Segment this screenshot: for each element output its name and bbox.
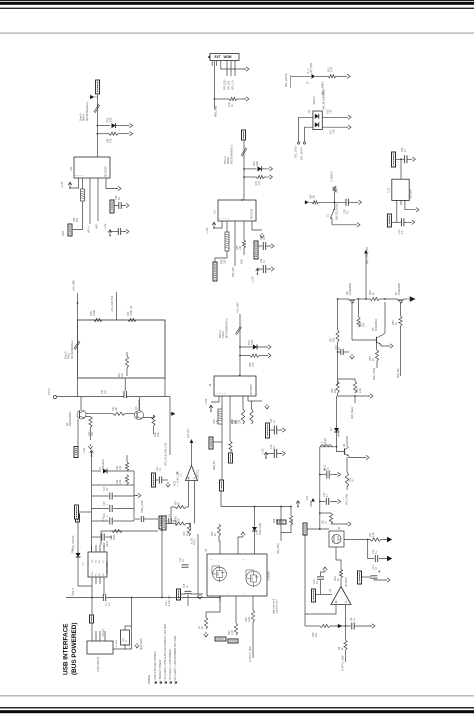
regulator U9	[218, 200, 256, 221]
capacitor C13b	[375, 555, 377, 562]
ground R58	[128, 132, 133, 136]
wire q2 link	[337, 447, 345, 452]
wire c13 a	[338, 351, 341, 353]
junction bus usb	[91, 597, 221, 599]
wire u10 in	[400, 159, 402, 179]
svg-text:SRA4-3: SRA4-3	[313, 96, 316, 105]
border top frame line	[0, 32, 474, 35]
junction U9 top	[241, 199, 243, 201]
label Q7 mmbt3906	[395, 283, 401, 295]
wire pwr sense rail	[78, 522, 92, 586]
svg-text:U.10: U.10	[388, 187, 391, 193]
wire r46 down	[243, 248, 245, 255]
wire s1 a	[311, 201, 312, 203]
ground bank	[136, 493, 141, 497]
wire u7 out up	[191, 441, 193, 465]
svg-text:T = 5V (LOAD) = USB POWER: T = 5V (LOAD) = USB POWER	[169, 649, 172, 684]
svg-text:+3.3V: +3.3V	[61, 181, 64, 188]
wire c29 gnd	[349, 201, 358, 203]
wire r31 q3	[125, 413, 135, 415]
offpage arrow fb	[336, 624, 342, 628]
resistor R56	[175, 522, 186, 525]
net +5V_USB	[72, 280, 76, 291]
ground R17	[88, 444, 92, 449]
svg-text:(BUS POWERED): (BUS POWERED)	[71, 622, 78, 675]
label Q5 mmbt3904	[372, 319, 378, 331]
wire right rail	[169, 397, 171, 455]
wire c18b down	[187, 595, 189, 607]
label +1.2V c28	[104, 223, 107, 230]
label MIC_M_KLINE	[324, 89, 326, 110]
wire q4 r17	[86, 416, 91, 418]
label C16 0.1 bank	[103, 513, 109, 518]
wire gate link	[308, 528, 330, 530]
net label R26 bot	[229, 453, 233, 463]
resistor R44	[257, 175, 265, 178]
label C25 0.1	[260, 235, 266, 240]
svg-text:MICROWAVE+2: MICROWAVE+2	[70, 339, 74, 359]
wire somres link	[79, 511, 92, 513]
testpoint RA3	[68, 224, 72, 236]
svg-text:U.9: U.9	[214, 210, 217, 214]
resistor R58	[109, 132, 118, 135]
wire u10 out	[392, 221, 401, 223]
wire r10 link	[219, 536, 220, 541]
pin u1 t2	[95, 545, 97, 552]
svg-text:MIC5319: MIC5319	[251, 208, 254, 219]
ground c18b	[198, 594, 202, 599]
svg-text:MIC_GND+: MIC_GND+	[295, 145, 298, 158]
wire bank c16b	[113, 520, 134, 522]
capacitor C21	[159, 477, 161, 484]
label R46 10k	[236, 245, 242, 250]
label U9	[214, 210, 217, 214]
capacitor C16b	[317, 577, 324, 579]
label C5 top	[103, 517, 108, 521]
svg-text:4: 4	[225, 393, 227, 394]
pin u10 b	[400, 200, 402, 205]
junction mic2	[243, 168, 245, 178]
ground TR1	[266, 345, 271, 349]
wire shunt stub	[354, 396, 356, 403]
label R10 1k	[211, 531, 217, 536]
transistor Q3	[135, 411, 144, 420]
resistor R15	[187, 524, 190, 536]
pin u5 top b	[254, 531, 256, 554]
isolation mosfet U5	[207, 554, 267, 596]
label Q3 2N2222A	[135, 399, 141, 410]
wire c18b a	[181, 593, 185, 595]
table row4	[169, 649, 172, 684]
svg-text:U.2: U.2	[180, 473, 183, 477]
net MIC_VENT	[301, 146, 304, 160]
svg-text:2MCU1000: 2MCU1000	[259, 522, 262, 535]
label R15	[183, 531, 189, 536]
svg-text:8: 8	[211, 559, 213, 560]
svg-text:2.49k: 2.49k	[93, 309, 96, 316]
svg-text:4: 4	[228, 218, 230, 219]
capacitor C16d	[110, 518, 112, 525]
pin U9-5	[252, 221, 262, 230]
label R12 10k	[312, 632, 318, 637]
label PR3 3.6V	[107, 117, 113, 122]
label R32 10k	[331, 388, 337, 393]
svg-text:C16: C16	[324, 492, 326, 497]
wire c30 gnd	[407, 158, 411, 160]
svg-text:PWR_SENSE: PWR_SENSE	[72, 535, 75, 551]
wire L1 row	[320, 446, 337, 448]
diode D4a	[315, 114, 319, 119]
wire mic1 vertical	[96, 95, 98, 157]
wire c22 stub	[124, 378, 126, 391]
ground R52	[345, 74, 350, 78]
pin j1 2	[95, 631, 97, 641]
resistor R9	[344, 640, 347, 650]
wire bank row1b	[107, 470, 134, 472]
label U11 part MIC5319	[104, 166, 108, 177]
capacitor C10	[327, 471, 329, 479]
stub R24 top	[126, 455, 128, 462]
wire c18b b	[191, 593, 203, 595]
diode D1	[103, 469, 107, 474]
label R42 1k	[369, 290, 375, 295]
label VDD 3.3 U7	[174, 471, 180, 486]
table header	[147, 675, 151, 684]
wire d4a right	[322, 116, 347, 118]
svg-text:MIC5205: MIC5205	[410, 189, 413, 199]
svg-text:1: 1	[211, 593, 213, 594]
table row3	[164, 623, 167, 684]
junction 5v top	[77, 302, 79, 304]
label J3 EXT WDM	[215, 55, 232, 59]
resistor R57	[175, 505, 186, 508]
capacitor C8	[352, 623, 354, 630]
pin numbers U9	[220, 218, 230, 219]
pin j1 4	[104, 631, 106, 641]
pin u1 b2	[95, 577, 97, 584]
ground J3	[244, 67, 249, 71]
svg-text:mmbt3904: mmbt3904	[346, 435, 349, 447]
svg-text:SMP_BY: SMP_BY	[214, 460, 216, 470]
svg-text:+1.2V: +1.2V	[262, 448, 265, 455]
wire fb link	[316, 594, 332, 596]
wire r11 top	[125, 626, 132, 630]
wire r33 join	[338, 393, 369, 396]
svg-text:MIC5319: MIC5319	[104, 166, 108, 177]
diode array D4	[313, 111, 322, 130]
wire c10 gnd	[330, 474, 336, 476]
net label VBUS	[90, 615, 94, 623]
ground C25	[269, 244, 274, 248]
svg-text:C19 +: C19 +	[166, 599, 168, 606]
label R24 10R	[116, 465, 122, 470]
wire q5 collector	[381, 302, 385, 336]
svg-text:+5V_PWR: +5V_PWR	[310, 62, 313, 74]
wire r58 to gnd	[118, 133, 128, 135]
svg-text:+1.5V: +1.5V	[206, 227, 209, 234]
wire c25	[258, 245, 263, 247]
label C17 2.2	[398, 229, 404, 234]
label pin 25	[308, 81, 310, 84]
wire bank row2	[92, 484, 135, 486]
junction dot VDD	[177, 472, 178, 473]
wire q4 base bus	[86, 413, 113, 415]
label L1 100uH	[322, 438, 327, 445]
net SPK_OUB	[165, 442, 168, 466]
label R17 2.2k	[369, 532, 375, 537]
ground C24	[269, 267, 274, 271]
capacitor C28	[118, 228, 120, 235]
wire swire	[197, 534, 199, 556]
net swire label	[193, 539, 196, 545]
svg-text:4.7R: 4.7R	[331, 67, 334, 72]
power +1.8V U9	[212, 222, 216, 229]
ground C21	[166, 482, 170, 487]
wire c17 gnd	[404, 221, 411, 223]
net label GATE	[303, 523, 307, 535]
label R30 10R	[236, 419, 242, 424]
resistor R10	[217, 524, 220, 536]
wire r57 r56	[171, 507, 175, 524]
wire q6 base down	[351, 305, 353, 340]
power +1.5V U8	[209, 405, 213, 412]
svg-text:Q1: Q1	[337, 526, 341, 530]
wire q bus	[338, 298, 349, 300]
capacitor C1top	[169, 518, 171, 524]
svg-text:3.6V: 3.6V	[110, 117, 113, 122]
svg-text:C24: C24	[261, 258, 263, 263]
svg-text:4.7k: 4.7k	[110, 138, 113, 143]
wire r16c out	[340, 578, 342, 586]
wire c21 a	[156, 479, 159, 481]
label C19 4.7uF	[166, 595, 171, 606]
wire bank gnd stub	[134, 495, 137, 497]
net MW_shunt	[351, 407, 354, 419]
capacitor C19	[102, 534, 104, 541]
label U5	[205, 548, 208, 552]
capacitor C17c	[110, 493, 112, 500]
svg-text:I = 5V (LOAD) = USB RUNNING: I = 5V (LOAD) = USB RUNNING OFF PWR	[174, 635, 177, 684]
wire mic3 vertical	[239, 314, 241, 376]
pin u5 bot b	[235, 596, 237, 623]
pin u1 b3	[99, 577, 101, 584]
ground C11c	[385, 578, 390, 582]
resistor R32	[336, 381, 339, 393]
wire u7 in2	[194, 481, 196, 524]
wire d4b left	[305, 127, 313, 142]
ground C16	[336, 499, 341, 503]
wire j1 shield	[113, 648, 132, 650]
wire mic2 vertical	[243, 140, 245, 200]
ferrite bead FB4	[236, 326, 242, 335]
label U1	[82, 562, 85, 566]
diode D2	[252, 527, 257, 531]
svg-text:2.2k: 2.2k	[119, 479, 122, 484]
regulator U11	[74, 157, 110, 178]
svg-text:MW_MC: MW_MC	[397, 368, 400, 378]
net label GND_ISO	[215, 637, 226, 641]
ground R44	[268, 175, 273, 179]
power +1.2V c24	[256, 268, 260, 275]
wire r16b down	[252, 622, 254, 658]
label U7 TLV2721	[197, 469, 200, 480]
wire r12 bus	[305, 625, 320, 627]
svg-text:2.2k: 2.2k	[121, 373, 124, 378]
wire mic1 to D	[97, 125, 110, 127]
net MW_PWM_IN	[373, 368, 376, 380]
resistor R20	[152, 415, 155, 426]
net name AVD	[96, 224, 99, 229]
wire shield up	[131, 598, 133, 649]
svg-text:100uH: 100uH	[325, 438, 327, 445]
wire u1 pin1 top	[91, 545, 93, 552]
svg-text:MBR0520: MBR0520	[102, 459, 105, 470]
capacitor C29	[346, 199, 348, 206]
wire s1 gnd	[332, 224, 356, 226]
wire c16 stub	[320, 500, 326, 502]
svg-text:2.2k: 2.2k	[248, 617, 251, 622]
svg-text:10uB: 10uB	[106, 541, 109, 547]
label D4 part SRAA-3	[313, 96, 316, 105]
ground C29	[357, 200, 362, 204]
label C16 0.1 u3	[313, 579, 319, 584]
power +1.2V c28	[108, 230, 112, 237]
net label GND_MW	[74, 447, 78, 458]
resistor R30	[250, 409, 253, 424]
resistor R24	[125, 462, 128, 471]
zener PR3	[112, 123, 116, 128]
label U3	[329, 588, 332, 592]
svg-text:+5V_USB_5V0: +5V_USB_5V0	[111, 295, 114, 312]
offpage arrow R17b	[387, 537, 392, 542]
diode D6	[76, 553, 81, 557]
net MIC_GND	[295, 145, 298, 158]
net name WP_RES	[88, 226, 91, 233]
usb ground bus b	[106, 598, 220, 603]
ground C13	[350, 354, 354, 359]
pin U11-1	[70, 178, 79, 188]
wire c16b up	[321, 572, 326, 576]
wire bank rail left	[91, 452, 93, 552]
label R11 note	[115, 640, 118, 647]
title USB INTERFACE	[63, 623, 70, 675]
net S_MW	[331, 171, 334, 182]
svg-text:SW_PWR: SW_PWR	[277, 543, 280, 554]
pin names U1 bot	[92, 571, 105, 576]
capacitor C15b	[141, 516, 143, 522]
wire r17b arrow	[381, 539, 387, 541]
capacitor C24	[263, 265, 265, 273]
label TP9	[307, 495, 309, 500]
label R17 10k	[88, 431, 94, 436]
label Q1	[337, 526, 341, 530]
label C1 0.1	[166, 513, 171, 517]
junction r18	[214, 98, 216, 100]
net SPI_SDI	[228, 80, 231, 90]
label R22 2.2k	[116, 479, 122, 484]
ground PR3	[128, 123, 133, 127]
wire loop charge path	[78, 320, 166, 378]
svg-text:R28: R28	[274, 518, 276, 523]
label +1.5V U8	[205, 398, 208, 405]
diode D4b	[315, 122, 319, 127]
ground U9 pin5	[260, 233, 264, 238]
ground R36	[266, 353, 271, 357]
label R68 10k	[337, 188, 339, 193]
wire u10 top	[396, 158, 405, 160]
pin u8 1	[211, 396, 219, 402]
wire q1 right	[344, 539, 370, 541]
svg-text:P = TARGET POWER: P = TARGET POWER	[159, 659, 162, 684]
resistor R23	[345, 472, 348, 487]
label C12 0.1	[179, 557, 185, 562]
wire c13b stub	[368, 540, 375, 559]
capacitor C15	[110, 505, 112, 512]
ground shield	[135, 643, 139, 648]
testpoint RA2	[213, 262, 217, 281]
wire bank c17b	[113, 495, 134, 497]
resistor R42	[370, 297, 380, 300]
svg-text:(bus GND): (bus GND)	[140, 638, 143, 650]
junction mic1 a	[97, 125, 99, 135]
wire c24	[258, 268, 263, 270]
wire q2 emitter	[349, 456, 364, 458]
pin U11-3	[89, 178, 91, 224]
junction c13	[337, 351, 339, 353]
offpage arrow +3.3V S1	[305, 201, 311, 205]
ground D4b	[346, 125, 351, 129]
wire out cap	[362, 576, 371, 578]
wire c26	[115, 205, 119, 207]
svg-text:100k: 100k	[113, 534, 116, 540]
label R43 10k	[221, 259, 227, 264]
svg-text:C18: C18	[184, 583, 186, 588]
wire resbox drop	[221, 424, 223, 480]
pin j1 1	[91, 623, 93, 641]
wire u3 in left	[305, 605, 336, 615]
wire r56 right	[186, 524, 191, 531]
svg-text:+1.2V: +1.2V	[252, 276, 255, 283]
wire bank row1	[92, 470, 102, 472]
resistor R48	[94, 318, 102, 321]
svg-text:7: 7	[227, 559, 229, 560]
resistor R22	[125, 475, 128, 485]
wire c15 bus b	[144, 518, 158, 520]
net MIC_+5V	[307, 62, 313, 74]
svg-text:2N2222A/2N: 2N2222A/2N	[69, 411, 72, 426]
label D4	[308, 109, 311, 113]
svg-text:+5V_MIC: +5V_MIC	[236, 302, 240, 313]
svg-text:1uF: 1uF	[104, 389, 107, 394]
resistor R35	[375, 350, 378, 361]
label R56 1k	[175, 516, 181, 521]
ground R21	[346, 522, 351, 526]
svg-text:2.2k: 2.2k	[157, 432, 160, 437]
wire c15 bus	[135, 518, 140, 520]
label TP1-2	[48, 388, 51, 395]
ground C26	[124, 203, 129, 207]
svg-text:MCP601: MCP601	[345, 577, 348, 587]
svg-text:TP1-2: TP1-2	[48, 388, 51, 395]
resistor R12	[320, 624, 330, 627]
svg-text:A3.1: A3.1	[330, 129, 333, 134]
wire r17 down	[90, 428, 92, 441]
ground C20	[280, 428, 285, 432]
wire c20 gnd	[277, 429, 281, 431]
wire loop right down	[164, 378, 166, 397]
svg-text:3.6V: 3.6V	[251, 340, 254, 345]
junction c10	[319, 474, 321, 530]
